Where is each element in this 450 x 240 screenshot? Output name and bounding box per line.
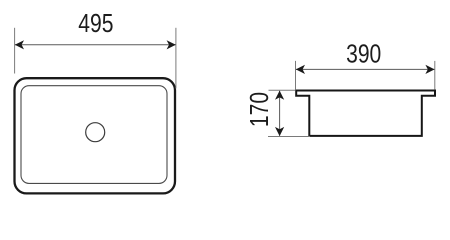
svg-text:170: 170 bbox=[246, 92, 274, 127]
dimension line 390 bbox=[296, 68, 434, 70]
extension line right (390) bbox=[434, 61, 436, 90]
basin outer rim (top view) bbox=[15, 78, 176, 193]
arrowhead 495 left bbox=[15, 40, 24, 49]
extension line left (390) bbox=[295, 61, 297, 90]
drain hole bbox=[86, 123, 105, 142]
arrowhead 390 left bbox=[296, 65, 305, 74]
extension line right (495) bbox=[175, 28, 177, 89]
extension line bottom (170) bbox=[268, 136, 310, 138]
svg-text:390: 390 bbox=[346, 41, 381, 69]
arrowhead 170 top bbox=[275, 91, 284, 100]
arrowhead 390 right bbox=[425, 65, 434, 74]
svg-text:495: 495 bbox=[78, 10, 113, 38]
arrowhead 170 bottom bbox=[275, 127, 284, 136]
basin inner edge (top view) bbox=[21, 86, 167, 184]
arrowhead 495 right bbox=[167, 40, 176, 49]
extension line top (170) bbox=[269, 89, 296, 91]
dimension line 495 bbox=[15, 44, 176, 46]
extension line left (495) bbox=[14, 28, 16, 74]
basin profile (side view) bbox=[296, 91, 435, 136]
dimension line 170 bbox=[279, 91, 281, 136]
